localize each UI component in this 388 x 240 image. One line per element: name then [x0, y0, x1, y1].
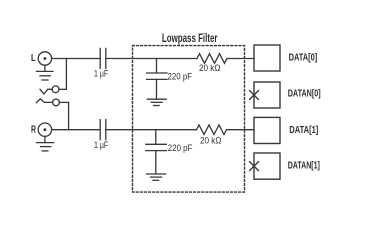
- label 20 kOhm (R2): [200, 136, 222, 146]
- svg-text:DATAN[0]: DATAN[0]: [288, 89, 321, 100]
- svg-text:20 kΩ: 20 kΩ: [199, 63, 221, 73]
- capacitor C2 1uF: [100, 120, 106, 140]
- capacitor C3 220pF: [147, 73, 168, 99]
- node L label: [31, 53, 36, 64]
- svg-text:Lowpass Filter: Lowpass Filter: [162, 31, 218, 45]
- wire C1 to R1: [106, 58, 197, 60]
- label 1 uF (C1): [94, 68, 109, 78]
- svg-text:R: R: [31, 124, 36, 135]
- svg-text:DATA[1]: DATA[1]: [289, 125, 318, 136]
- label 1 uF (C2): [94, 140, 109, 150]
- resistor R1 20k: [197, 54, 227, 64]
- svg-text:20 kΩ: 20 kΩ: [200, 136, 222, 146]
- wire L jack to C1: [52, 58, 100, 60]
- no-connect X (DATAN[1]): [250, 162, 259, 171]
- label 220 pF (C3): [168, 71, 193, 81]
- svg-text:DATA[0]: DATA[0]: [289, 53, 318, 64]
- svg-text:220 pF: 220 pF: [168, 71, 193, 81]
- switch S1: [40, 86, 66, 94]
- svg-text:DATAN[1]: DATAN[1]: [288, 161, 320, 172]
- switch S2: [36, 99, 68, 106]
- capacitor C1 1uF: [100, 48, 106, 68]
- label DATA[1]: [289, 125, 318, 136]
- svg-text:L: L: [31, 53, 36, 64]
- pin box DATA[1]: [254, 117, 280, 143]
- no-connect X (DATAN[0]): [250, 91, 259, 100]
- wire junction to C4: [155, 130, 157, 145]
- lowpass filter boundary (dashed box): [133, 46, 245, 193]
- pin box DATAN[0]: [254, 82, 280, 108]
- wire C2 to R2: [106, 129, 197, 131]
- wire R2 to DATA[1]: [227, 129, 255, 131]
- svg-text:1 µF: 1 µF: [94, 140, 109, 150]
- node R label: [31, 124, 36, 135]
- ground (L jack): [37, 65, 54, 80]
- ground (R jack): [37, 136, 54, 151]
- ground (C4): [147, 174, 166, 180]
- pin box DATA[0]: [254, 45, 280, 71]
- wire R jack to C2: [52, 129, 100, 131]
- ground (C3): [147, 99, 166, 105]
- pin box DATAN[1]: [254, 153, 280, 179]
- jack J2 (R input): [38, 123, 51, 136]
- wire junction to switch S2: [68, 102, 70, 129]
- capacitor C4 220pF: [146, 144, 167, 174]
- label Lowpass Filter: [162, 31, 218, 45]
- label 20 kOhm (R1): [199, 63, 221, 73]
- jack J1 (L input): [38, 52, 51, 65]
- label 220 pF (C4): [168, 143, 193, 153]
- wire junction to switch S1: [65, 59, 67, 90]
- svg-text:1 µF: 1 µF: [94, 68, 109, 78]
- svg-text:220 pF: 220 pF: [168, 143, 193, 153]
- label DATA[0]: [289, 53, 318, 64]
- wire junction to C3: [156, 59, 158, 74]
- label DATAN[0]: [288, 89, 321, 100]
- label DATAN[1]: [288, 161, 320, 172]
- wire R1 to DATA[0]: [227, 58, 254, 60]
- resistor R2 20k: [197, 125, 227, 135]
